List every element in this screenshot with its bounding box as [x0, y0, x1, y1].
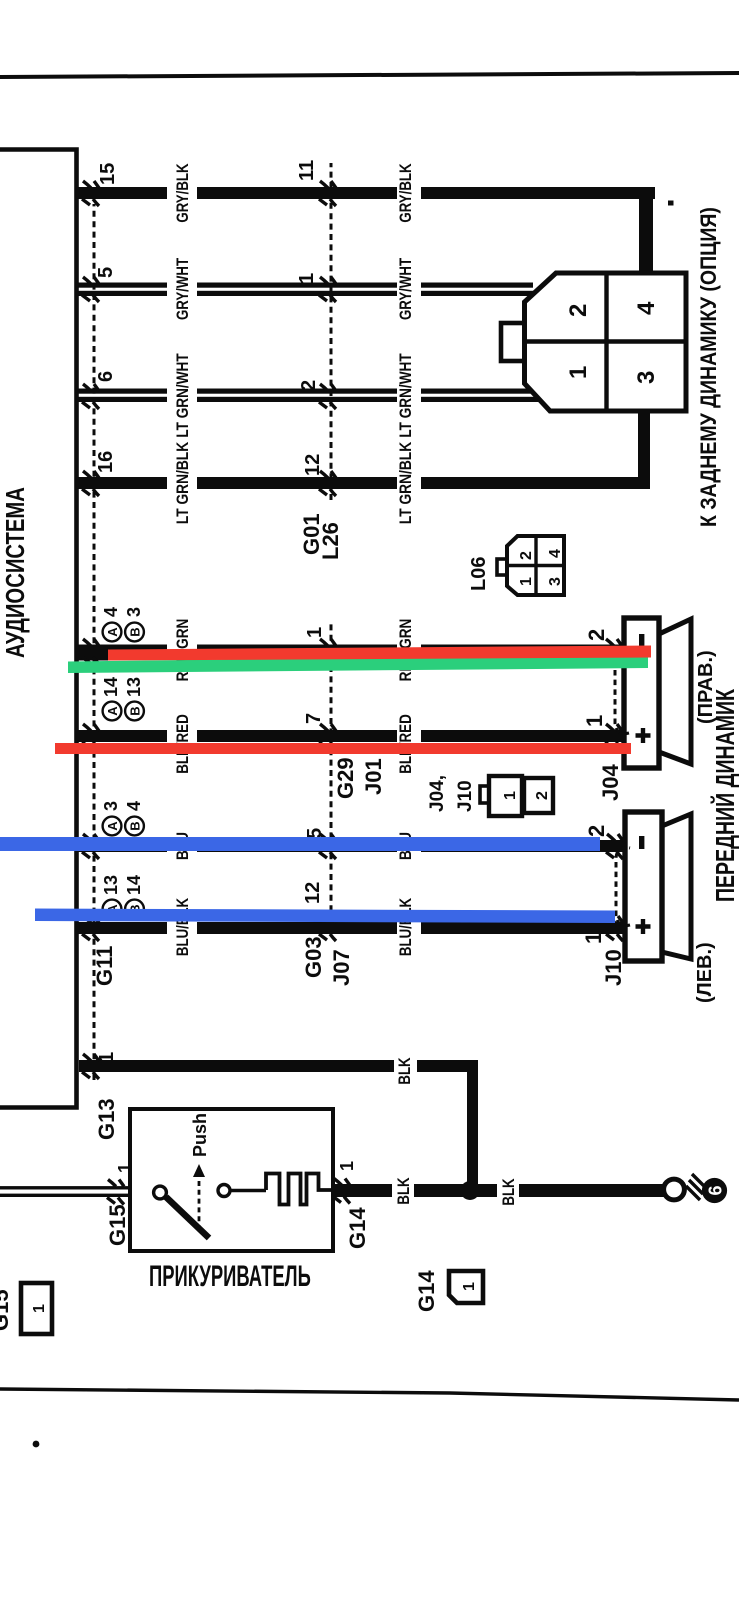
- push arrow dashed: [198, 1178, 201, 1230]
- svg-text:2: 2: [298, 380, 320, 391]
- wire name GRY/BLK lower: [397, 163, 416, 222]
- wire name LT GRN/BLK upper: [174, 441, 193, 524]
- connector G14 face view: [449, 1271, 483, 1303]
- pins A3 B4 on BLU: [103, 817, 122, 836]
- svg-text:GRY/WHT: GRY/WHT: [397, 257, 416, 320]
- svg-text:14: 14: [101, 677, 121, 697]
- svg-text:BLK: BLK: [395, 1177, 414, 1204]
- svg-text:3: 3: [101, 801, 121, 811]
- ground symbol circle: [664, 1179, 685, 1200]
- svg-text:J07: J07: [329, 949, 354, 986]
- front left speaker + terminal: [636, 919, 651, 934]
- svg-text:J10: J10: [455, 780, 476, 812]
- wire name BLU/BLK upper: [174, 898, 193, 956]
- lighter switch contact circle 2: [218, 1185, 230, 1197]
- front right speaker symbol J04: [624, 618, 691, 768]
- svg-text:G14: G14: [345, 1207, 370, 1249]
- svg-text:ПРИКУРИВАТЕЛЬ: ПРИКУРИВАТЕЛЬ: [149, 1259, 311, 1293]
- wire name RED/GRN upper: [174, 619, 193, 682]
- heater element square wave: [266, 1174, 333, 1205]
- svg-text:B: B: [127, 706, 142, 715]
- connector J10 dashed line: [616, 847, 630, 925]
- connector L06 face view: [497, 536, 564, 595]
- svg-text:6: 6: [95, 371, 117, 382]
- front left speaker - terminal: [639, 836, 644, 849]
- svg-text:3: 3: [547, 577, 564, 586]
- ground point disc number 6: [702, 1178, 727, 1203]
- svg-text:G13: G13: [94, 1098, 119, 1140]
- wire name BLU lower: [397, 832, 416, 860]
- svg-text:LT GRN/WHT: LT GRN/WHT: [174, 353, 193, 438]
- svg-text:J04: J04: [598, 764, 623, 801]
- wire GRY/WHT (to rear speaker pin 2, double line): [76, 283, 541, 297]
- connector L06 (rear speaker harness, 4-pin): [501, 273, 686, 411]
- svg-text:1: 1: [565, 366, 592, 379]
- svg-text:16: 16: [95, 451, 117, 473]
- svg-text:7: 7: [303, 713, 325, 724]
- lighter switch blade: [166, 1197, 209, 1238]
- connector J04/J10 face view (2-pin): [480, 776, 553, 816]
- svg-text:G29: G29: [333, 757, 358, 799]
- svg-text:15: 15: [97, 163, 119, 185]
- svg-text:A: A: [105, 821, 120, 831]
- svg-text:1: 1: [582, 715, 607, 727]
- svg-text:Push: Push: [190, 1113, 210, 1157]
- wire BLU (front left speaker -): [76, 840, 167, 852]
- pins A13 B14 on BLU/BLK: [103, 900, 122, 919]
- svg-text:4: 4: [101, 607, 121, 617]
- pins A14 B13 on BLK/RED: [103, 702, 122, 721]
- wire name BLK/RED lower: [397, 714, 416, 774]
- svg-text:(ЛЕВ.): (ЛЕВ.): [694, 942, 716, 1003]
- svg-text:G15: G15: [0, 1289, 13, 1331]
- svg-text:L06: L06: [468, 557, 490, 591]
- svg-text:6: 6: [706, 1185, 726, 1195]
- svg-text:4: 4: [547, 549, 564, 558]
- svg-text:1: 1: [461, 1282, 478, 1291]
- svg-text:J01: J01: [361, 758, 386, 795]
- svg-text:1: 1: [115, 1163, 135, 1173]
- svg-text:13: 13: [124, 677, 144, 697]
- svg-text:1: 1: [518, 577, 535, 586]
- svg-text:2: 2: [534, 791, 551, 800]
- svg-text:1: 1: [31, 1304, 48, 1313]
- blue highlighter bar beside BLU/BLK wire: [35, 909, 615, 924]
- svg-text:1: 1: [96, 1052, 118, 1063]
- svg-text:A: A: [105, 706, 120, 716]
- svg-text:К ЗАДНЕМУ ДИНАМИКУ (ОПЦИЯ): К ЗАДНЕМУ ДИНАМИКУ (ОПЦИЯ): [697, 207, 721, 527]
- svg-text:14: 14: [124, 875, 144, 895]
- junction node of BLK wires: [461, 1181, 480, 1200]
- audio head unit box outline: [0, 150, 77, 1108]
- wire name GRY/BLK upper: [174, 163, 193, 222]
- wire BLK/RED (front right speaker +): [76, 730, 167, 742]
- svg-text:1: 1: [296, 273, 318, 284]
- svg-text:L26: L26: [318, 522, 343, 560]
- svg-text:BLU/BLK: BLU/BLK: [397, 898, 416, 956]
- svg-text:B: B: [127, 627, 142, 636]
- wire BLK from head unit pin G13-1: [79, 1060, 394, 1072]
- wire name BLK/RED upper: [174, 714, 193, 774]
- blue highlighter bar over BLU wire: [0, 837, 600, 851]
- wire name GRY/WHT upper: [174, 257, 193, 320]
- red highlighter bar over BLK/RED wire: [55, 743, 631, 754]
- svg-text:A: A: [105, 627, 120, 637]
- svg-text:11: 11: [296, 160, 318, 181]
- connector line G01/L26 (dashed, rear speaker group): [330, 163, 333, 500]
- stray scan dot near frame: [33, 1441, 40, 1448]
- ground hatching: [686, 1174, 705, 1200]
- wire name LT GRN/WHT lower: [397, 353, 416, 438]
- cigarette lighter box: [130, 1109, 333, 1251]
- svg-text:J10: J10: [601, 949, 626, 986]
- svg-text:12: 12: [302, 454, 324, 476]
- front left speaker symbol J10: [625, 812, 691, 961]
- stray scan dash near wire GRY/BLK corner: [668, 201, 674, 206]
- svg-text:2: 2: [518, 551, 535, 560]
- svg-text:GRY/WHT: GRY/WHT: [174, 257, 193, 320]
- green highlighter bar over RED/GRN wire: [68, 654, 648, 673]
- wire name LT GRN/BLK lower: [397, 441, 416, 524]
- svg-text:2: 2: [565, 304, 592, 317]
- svg-text:GRY/BLK: GRY/BLK: [174, 163, 193, 222]
- wire LT GRN/BLK (to rear speaker pin 3): [76, 477, 167, 489]
- svg-text:1: 1: [304, 627, 326, 638]
- svg-text:B: B: [127, 821, 142, 830]
- svg-text:1: 1: [337, 1161, 357, 1171]
- wire name LT GRN/WHT upper: [174, 353, 193, 438]
- svg-text:G15: G15: [105, 1204, 130, 1246]
- front right speaker + terminal: [636, 728, 651, 743]
- wire name BLU upper: [174, 832, 193, 860]
- svg-text:LT GRN/BLK: LT GRN/BLK: [174, 441, 193, 524]
- connector J04 dashed line: [615, 651, 629, 733]
- svg-text:1: 1: [502, 791, 519, 800]
- svg-text:2: 2: [584, 629, 609, 641]
- wire RED/GRN (front right speaker -): [76, 645, 109, 661]
- svg-text:BLK: BLK: [396, 1057, 415, 1084]
- svg-text:3: 3: [633, 371, 660, 384]
- svg-text:12: 12: [302, 882, 324, 904]
- wire name BLU/BLK lower: [397, 898, 416, 956]
- svg-text:BLK: BLK: [500, 1178, 519, 1205]
- wire BLU/BLK (front left speaker +): [76, 922, 167, 934]
- svg-text:АУДИОСИСТЕМА: АУДИОСИСТЕМА: [1, 487, 30, 658]
- wire switch to heater element: [230, 1189, 266, 1192]
- svg-text:G03: G03: [301, 936, 326, 978]
- svg-text:4: 4: [124, 801, 144, 811]
- red highlighter bar over RED/GRN wire: [108, 646, 651, 661]
- svg-text:(ПРАВ.): (ПРАВ.): [695, 650, 717, 724]
- pins A4 B3 on RED/GRN: [103, 623, 122, 642]
- lighter switch contact circle 1: [154, 1186, 167, 1199]
- svg-text:LT GRN/WHT: LT GRN/WHT: [397, 353, 416, 438]
- svg-text:1: 1: [581, 932, 606, 944]
- front right speaker - terminal: [639, 634, 644, 647]
- connector crossing tick marks at dashed connector lines: [82, 181, 623, 1205]
- diagram frame border (bottom line of scanned page): [0, 1389, 739, 1400]
- svg-text:G14: G14: [414, 1270, 439, 1312]
- wire name GRY/WHT lower: [397, 257, 416, 320]
- connector G15 face view: [21, 1283, 52, 1334]
- svg-text:5: 5: [95, 267, 117, 278]
- svg-text:J04,: J04,: [427, 775, 448, 812]
- wire name RED/GRN lower: [397, 619, 416, 682]
- wire GRY/BLK (to rear speaker pin 4): [76, 187, 167, 199]
- svg-text:BLU/BLK: BLU/BLK: [174, 898, 193, 956]
- wire feed to cigarette lighter G15 (double line from page edge): [0, 1194, 130, 1197]
- diagram frame border (top line of scanned page): [0, 73, 739, 77]
- connector line G11/G13 (dashed, head unit side): [93, 204, 96, 1080]
- svg-text:4: 4: [633, 301, 660, 315]
- svg-text:3: 3: [124, 607, 144, 617]
- svg-text:GRY/BLK: GRY/BLK: [397, 163, 416, 222]
- wire LT GRN/WHT (to rear speaker pin 1, double line): [76, 389, 547, 403]
- wire BLK from cigarette lighter to ground: [333, 1184, 392, 1197]
- connector line G29/J01 and G03/J07 (dashed, front speaker group): [330, 620, 333, 932]
- svg-text:G11: G11: [92, 946, 117, 986]
- svg-text:LT GRN/BLK: LT GRN/BLK: [397, 441, 416, 524]
- svg-text:2: 2: [584, 825, 609, 837]
- svg-text:13: 13: [101, 875, 121, 895]
